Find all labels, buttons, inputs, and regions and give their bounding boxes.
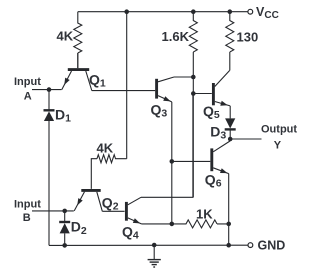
junction top rail / 1.6K	[191, 9, 196, 14]
wire input A	[32, 89, 62, 91]
wire input B	[32, 210, 74, 212]
svg-text:GND: GND	[258, 239, 286, 253]
junction 1K / Q6 emitter	[226, 222, 231, 227]
wire VCC top rail	[78, 11, 248, 13]
svg-text:1.6K: 1.6K	[162, 29, 190, 44]
wire Q4 collector to Q5 base node	[141, 94, 193, 198]
wire Q1 collector to Q3 base	[92, 90, 155, 92]
svg-text:Q6: Q6	[205, 171, 222, 189]
svg-text:Y: Y	[274, 140, 282, 152]
junction Q4 emitter / 1K	[170, 222, 175, 227]
wire Q4 emitter to 1K node	[141, 223, 171, 225]
junction 1.6K / Q3 collector	[191, 75, 196, 80]
svg-text:Q5: Q5	[203, 103, 220, 121]
wire Q3 emitter chain	[171, 102, 173, 224]
wire GND bottom rail	[49, 244, 248, 246]
junction input B / D2	[62, 209, 67, 214]
junction GND rail / ground symbol	[152, 243, 157, 248]
wire Q6 emitter to GND rail	[228, 174, 230, 246]
svg-text:D2: D2	[71, 219, 87, 237]
GND terminal	[248, 243, 253, 248]
junction GND rail / D2	[62, 243, 67, 248]
svg-text:Input: Input	[14, 199, 41, 211]
diode D1	[48, 90, 50, 110]
svg-text:Q2: Q2	[102, 195, 119, 213]
svg-text:Q3: Q3	[151, 101, 168, 119]
VCC terminal	[248, 9, 253, 14]
wire 1.6K to Q5 base node	[192, 77, 194, 197]
transistor Q4	[125, 202, 128, 221]
junction Q5 base node	[191, 91, 196, 96]
resistor 4K (Q1 base)	[74, 12, 82, 68]
wire Q2 collector to Q4 base	[102, 210, 124, 212]
transistor Q1	[68, 68, 89, 71]
junction top rail / Q2 4K wire	[124, 9, 129, 14]
svg-text:Q1: Q1	[89, 71, 106, 89]
wire top rail to 4K (Q2)	[126, 12, 128, 159]
transistor Q3	[155, 79, 158, 99]
svg-text:D1: D1	[55, 107, 71, 125]
ground	[153, 245, 155, 259]
svg-text:4K: 4K	[57, 29, 74, 44]
svg-text:1K: 1K	[196, 207, 213, 222]
junction GND rail / Q6 emitter	[226, 243, 231, 248]
svg-text:A: A	[24, 90, 32, 102]
junction input A / D1	[47, 87, 52, 92]
resistor 1K	[172, 220, 229, 228]
svg-text:130: 130	[237, 30, 259, 45]
svg-text:VCC: VCC	[256, 5, 279, 21]
junction Q6 base node	[170, 159, 175, 164]
svg-text:D3: D3	[210, 123, 226, 141]
transistor Q2	[81, 189, 100, 192]
junction output node	[228, 137, 233, 142]
svg-text:B: B	[23, 212, 31, 224]
transistor Q5	[212, 83, 215, 105]
resistor 1.6K	[189, 12, 197, 77]
resistor 130	[226, 12, 234, 71]
wire Q6 base	[172, 160, 211, 162]
diode D2	[64, 211, 66, 222]
svg-text:Q4: Q4	[122, 223, 139, 241]
wire output	[230, 138, 261, 140]
wire Q5 base	[193, 93, 212, 95]
junction top rail / 130	[228, 9, 233, 14]
diode D3	[229, 106, 231, 119]
svg-text:Input: Input	[14, 76, 41, 88]
transistor Q6	[210, 148, 213, 171]
resistor 4K (Q2 base)	[91, 155, 126, 189]
svg-text:4K: 4K	[97, 141, 114, 156]
svg-text:Output: Output	[261, 123, 297, 135]
